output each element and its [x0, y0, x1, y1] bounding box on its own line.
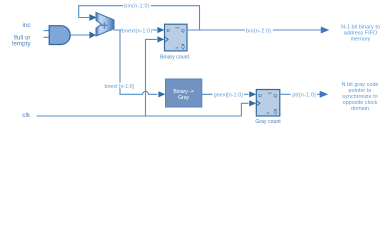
svg-text:set: set: [175, 26, 179, 30]
arrowhead into binary-to-gray converter: [158, 91, 165, 97]
wire feedback bin[n-1:0] top loop: [79, 6, 200, 30]
svg-text:N-1 bit binary to: N-1 bit binary to: [341, 24, 380, 30]
arrowhead bin output to FIFO address: [321, 27, 330, 34]
svg-text:clr: clr: [176, 46, 179, 50]
svg-text:Gray count: Gray count: [255, 119, 281, 125]
svg-text:Q: Q: [274, 110, 278, 115]
svg-text:ptr[n-1:0]: ptr[n-1:0]: [292, 93, 316, 99]
svg-text:set: set: [268, 91, 272, 95]
svg-text:Binary ->: Binary ->: [173, 89, 194, 95]
wire gray count Q output ptr: [280, 93, 322, 95]
wire AND output to adder: [70, 34, 90, 36]
label bnext [n-1:0]: [104, 83, 135, 89]
AND gate: [49, 26, 70, 45]
arrowhead into adder upper input: [89, 14, 97, 21]
arrowhead into gray count D: [249, 91, 256, 97]
binary count register U2: [165, 24, 188, 51]
wire bnext branch down to converter: [120, 30, 158, 94]
svg-text:!empty: !empty: [12, 41, 32, 48]
svg-text:memory: memory: [351, 37, 371, 43]
svg-text:Q: Q: [181, 28, 185, 33]
arrowhead into adder lower input: [89, 32, 96, 39]
svg-text:address FIFO: address FIFO: [344, 31, 378, 37]
binary to gray converter U3: [166, 79, 202, 107]
label bnext(n-1:0): [122, 27, 153, 33]
wire clk line: [37, 39, 249, 116]
label bin(n-1:0): [123, 2, 151, 8]
adder U1: [96, 12, 114, 36]
svg-text:domain: domain: [351, 106, 369, 112]
svg-text:clk: clk: [22, 112, 31, 119]
arrowhead ptr output: [320, 91, 329, 98]
svg-text:Q: Q: [181, 44, 185, 49]
label bin(n-2:0): [245, 27, 273, 33]
svg-text:bin(n-2:0): bin(n-2:0): [246, 28, 272, 34]
arrowhead into binary count D: [157, 27, 164, 33]
svg-text:Gray: Gray: [178, 95, 189, 101]
svg-text:clr: clr: [267, 111, 270, 115]
arrowhead into gray count clock: [249, 100, 256, 106]
svg-text:gnext[n-1:0]: gnext[n-1:0]: [214, 93, 244, 99]
wire adder output bnext to binary count D: [114, 29, 158, 31]
svg-text:inc: inc: [22, 22, 30, 29]
wire binary count Q output bin: [187, 29, 323, 31]
wire AND gate input stubs: [44, 31, 50, 38]
arrowhead into binary count clock: [157, 36, 164, 42]
svg-text:Binary count: Binary count: [160, 55, 189, 61]
label gnext[n-1:0]: [213, 91, 245, 97]
svg-text:bnext(n-1:0): bnext(n-1:0): [122, 28, 152, 34]
gray count register U4: [256, 90, 280, 117]
wire gnext converter to gray count D: [202, 93, 249, 95]
svg-text:Q: Q: [274, 93, 278, 98]
svg-text:bin(n-1:0): bin(n-1:0): [124, 4, 150, 10]
label ptr[n-1:0]: [291, 91, 318, 97]
svg-text:bnext [n-1:0]: bnext [n-1:0]: [105, 84, 135, 90]
